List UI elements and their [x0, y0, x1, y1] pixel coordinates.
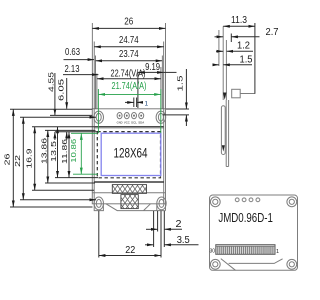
glass slot rounded [221, 106, 225, 155]
pin SDA [139, 113, 144, 119]
back PCB outline [210, 195, 298, 270]
mounting hole bottom-right [157, 197, 166, 210]
dim 22 bottom [99, 255, 161, 257]
mounting hole bottom-left [94, 197, 103, 210]
dim 16.9 vertical [34, 127, 36, 191]
ext glass top [32, 126, 94, 128]
back hole top-left [210, 197, 220, 207]
svg-text:22: 22 [13, 155, 22, 167]
black wedge top [223, 93, 227, 100]
back hole top-right [287, 197, 297, 207]
back hole bottom-right [287, 259, 297, 269]
pin GND [117, 113, 122, 119]
FPC hatch lower [121, 195, 138, 209]
connector tail trapezoid [106, 204, 166, 211]
ext A/A top green [71, 132, 97, 134]
pin side line [218, 30, 220, 66]
green A/A extension right [160, 89, 162, 133]
dim 13.5 vertical [57, 127, 59, 178]
dim 2 [146, 228, 158, 230]
ext glass bottom [32, 189, 94, 191]
ext 11.3 right vertical [254, 23, 256, 94]
bottom recess trapezoid [221, 259, 283, 271]
svg-text:13.5: 13.5 [49, 141, 58, 162]
svg-text:26: 26 [124, 17, 133, 28]
dim 1 pin pitch [133, 98, 135, 108]
ext right edge vertical [163, 211, 165, 247]
lower body verticals [225, 100, 227, 167]
4 small vias top [235, 198, 239, 202]
ext 2 left vertical [157, 211, 159, 232]
svg-text:1.5: 1.5 [240, 55, 253, 66]
dim 21.74 (A/A) green [98, 93, 160, 95]
ext A/A bottom green [73, 173, 98, 175]
svg-text:21.74(A/A): 21.74(A/A) [112, 81, 147, 92]
extension lines right stack [165, 23, 167, 109]
PCB front face [222, 26, 224, 100]
ext V/A bottom [55, 177, 98, 179]
dim 26 top [92, 27, 165, 29]
ext V/A top [55, 131, 97, 133]
svg-text:JMD0.96D-1: JMD0.96D-1 [218, 210, 273, 225]
svg-text:22.74(V/A): 22.74(V/A) [111, 68, 146, 79]
svg-text:128X64: 128X64 [114, 146, 148, 162]
active area blue rectangle [101, 133, 161, 175]
dim 11.86 vertical [68, 132, 70, 178]
ext module top [10, 108, 92, 110]
PCB inner line above bottom [92, 192, 165, 194]
dim 11.3 [223, 25, 255, 27]
svg-text:26: 26 [3, 154, 12, 166]
FPC ribbon connector [216, 245, 275, 255]
dim 23.74 [96, 60, 163, 62]
dim 24.74 [94, 46, 164, 48]
PCB back face [225, 40, 227, 100]
svg-text:1.5: 1.5 [175, 76, 184, 92]
glass bottom dark line [94, 181, 164, 183]
ext bottom hole right center vertical [160, 211, 162, 258]
ext top hole center [20, 116, 96, 118]
svg-text:11.86: 11.86 [60, 139, 69, 164]
FPC hatch upper [112, 185, 146, 194]
pin SCL [132, 113, 137, 119]
svg-text:23.74: 23.74 [119, 49, 139, 60]
dim 1.2 [216, 50, 223, 52]
svg-text:9.19: 9.19 [145, 62, 160, 73]
svg-text:0.63: 0.63 [65, 47, 80, 58]
dim 22.74 (V/A) [97, 78, 161, 80]
extension lines left stack [91, 23, 93, 109]
viewing area dashed rectangle [97, 132, 160, 178]
svg-text:24.74: 24.74 [119, 35, 139, 46]
pin header box [232, 89, 241, 98]
dim 10.86 vertical green [80, 133, 82, 174]
pin VCC [124, 113, 129, 119]
black wedge in slot [222, 145, 225, 151]
svg-text:11.3: 11.3 [231, 15, 247, 26]
ext 2.7 right vertical [230, 34, 232, 43]
dim 26 vertical [12, 109, 14, 207]
svg-text:13.86: 13.86 [40, 138, 49, 164]
mounting hole top-left [94, 111, 104, 123]
svg-text:6.05: 6.05 [57, 79, 66, 101]
svg-text:1: 1 [145, 100, 149, 107]
mounting hole top-right [156, 111, 166, 123]
svg-text:10.86: 10.86 [69, 139, 78, 163]
svg-text:3.5: 3.5 [177, 235, 190, 246]
svg-text:2.13: 2.13 [65, 64, 80, 75]
svg-text:1: 1 [276, 249, 279, 255]
svg-text:22: 22 [125, 245, 135, 256]
svg-text:VCC: VCC [124, 121, 131, 125]
dim 2.13 leader [63, 74, 98, 76]
pin wire [240, 93, 255, 95]
ext bottom hole left center vertical [98, 211, 100, 258]
PCB outline front view [92, 109, 165, 204]
svg-text:2.7: 2.7 [266, 27, 279, 38]
dim 1.5 [213, 64, 219, 66]
green A/A extension left [97, 89, 99, 133]
dim 4.55 [54, 73, 56, 115]
ext module bottom [10, 206, 93, 208]
svg-text:SCL: SCL [131, 121, 137, 125]
glass left edge [93, 109, 95, 204]
dim 22 vertical [22, 117, 24, 200]
pin row extension to left [50, 114, 92, 116]
dim 3.5 [145, 244, 154, 246]
dim 9.19 [138, 71, 164, 73]
svg-text:1.2: 1.2 [237, 41, 250, 52]
glass top edge double line [94, 126, 164, 128]
dim 2.7 [215, 36, 224, 38]
svg-text:2: 2 [176, 219, 182, 230]
svg-text:16.9: 16.9 [24, 149, 33, 169]
dim 1.5 right side of front view [166, 108, 189, 110]
dim 6.05 [66, 78, 68, 109]
svg-text:4.55: 4.55 [46, 72, 55, 92]
9.19 left extension vertical [137, 72, 139, 108]
ext 13.86 top [45, 129, 96, 131]
ribbon top inner line [216, 245, 275, 247]
svg-text:30: 30 [210, 249, 216, 255]
dim 0.63 leader [64, 59, 95, 61]
ext bottom hole center [20, 199, 96, 201]
glass right edge [163, 109, 165, 204]
left ear under hole [94, 204, 103, 211]
ext 3.5 left vertical [153, 211, 155, 247]
back hole bottom-left [210, 259, 220, 269]
svg-text:GND: GND [117, 121, 124, 125]
ext 13.86 bottom [45, 182, 95, 184]
right ear verticals [157, 204, 166, 211]
dim 13.86 vertical [47, 130, 49, 183]
svg-text:SDA: SDA [138, 121, 145, 125]
